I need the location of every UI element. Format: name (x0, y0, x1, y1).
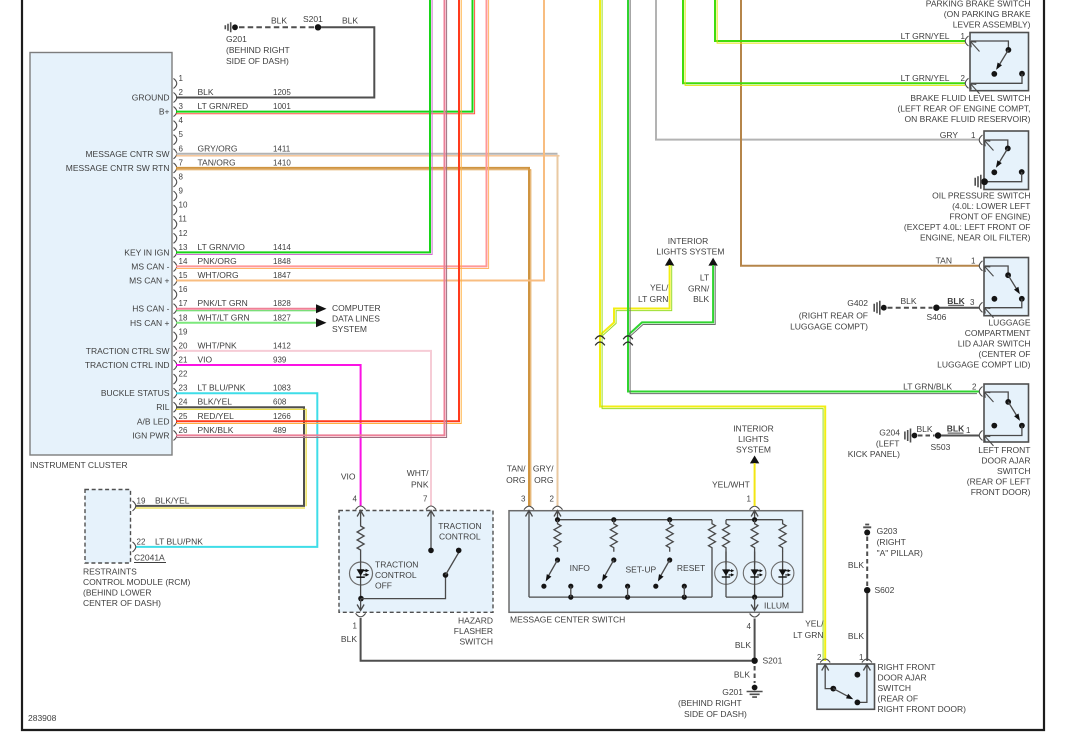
svg-text:2: 2 (817, 653, 822, 662)
wire BLK S602 to right front door switch pin 1 (848, 593, 867, 661)
svg-text:BLK: BLK (848, 631, 864, 641)
svg-text:S201: S201 (763, 656, 783, 666)
svg-text:LT GRN: LT GRN (793, 630, 823, 640)
svg-text:2: 2 (550, 495, 555, 504)
message center switch pin 1 connector (712, 480, 760, 510)
wire YEL/LT GRN from top edge to break (600, 0, 602, 348)
svg-text:13: 13 (179, 243, 188, 252)
svg-text:LT BLU/PNK: LT BLU/PNK (155, 536, 203, 546)
svg-text:HAZARD: HAZARD (458, 616, 493, 626)
wire BLK dashed G201 to S201 (239, 16, 314, 28)
ground G402 (right rear of luggage compt) (790, 298, 887, 332)
brake fluid level switch box (897, 33, 1030, 125)
message center pin 4 exit arrow (751, 597, 758, 610)
svg-text:1: 1 (971, 131, 976, 140)
svg-text:21: 21 (179, 356, 188, 365)
svg-text:16: 16 (179, 285, 188, 294)
wire TAN/ORG 1410 cluster pin 7 to message center switch pin 3 (176, 168, 531, 506)
wire YEL/LT GRN arrow jog to break (600, 265, 671, 336)
svg-text:25: 25 (179, 412, 188, 421)
left front door switch pin 1 connector (966, 426, 994, 446)
oil pressure switch contacts (985, 140, 1025, 182)
svg-text:1266: 1266 (273, 412, 291, 421)
svg-text:7: 7 (179, 158, 184, 167)
luggage switch pin 3 connector (970, 298, 994, 318)
svg-text:KEY IN IGN: KEY IN IGN (124, 247, 169, 257)
svg-text:(RIGHT REAR OF: (RIGHT REAR OF (799, 311, 868, 321)
svg-text:489: 489 (273, 426, 287, 435)
ground G201 (behind right side of dash) bottom (678, 685, 763, 720)
svg-text:1414: 1414 (273, 243, 291, 252)
svg-text:20: 20 (179, 341, 188, 350)
svg-text:BLK: BLK (734, 670, 750, 680)
svg-text:10: 10 (179, 201, 188, 210)
svg-text:12: 12 (179, 229, 188, 238)
label parking brake switch (926, 0, 1031, 30)
svg-text:(BEHIND LOWER: (BEHIND LOWER (83, 588, 151, 598)
wire BLK dashed G203 to S602 (848, 537, 867, 587)
connector C2041A label (134, 553, 166, 563)
svg-text:17: 17 (179, 299, 188, 308)
svg-text:BLK: BLK (198, 87, 214, 97)
wire WHT/PNK 1412 cluster pin 20 to hazard flasher pin 7 (176, 351, 431, 506)
ground G203 (right A pillar) (863, 525, 923, 559)
svg-text:VIO: VIO (198, 355, 213, 365)
wire BLK dashed G204 to S503 (916, 424, 934, 435)
svg-text:LIGHTS SYSTEM: LIGHTS SYSTEM (656, 247, 724, 257)
hazard flasher switch lever (361, 548, 462, 599)
svg-text:BLK: BLK (900, 296, 916, 306)
svg-text:15: 15 (179, 271, 188, 280)
instrument cluster pin numbers (179, 74, 188, 435)
svg-text:LT GRN/BLK: LT GRN/BLK (903, 381, 952, 391)
label traction control (438, 521, 481, 542)
svg-text:IGN PWR: IGN PWR (132, 430, 169, 440)
resistor reset (666, 520, 673, 552)
right front door switch contacts (822, 665, 871, 706)
hazard flasher resistor (357, 524, 364, 552)
svg-text:1: 1 (859, 653, 864, 662)
svg-text:1: 1 (747, 495, 752, 504)
instrument cluster signal labels (66, 93, 170, 441)
svg-text:GRY: GRY (940, 130, 959, 140)
svg-text:BLK: BLK (693, 294, 709, 304)
wire LT GRN/BLK arrow jog to break (628, 265, 715, 337)
svg-text:1827: 1827 (273, 313, 291, 322)
svg-text:YEL/: YEL/ (805, 619, 824, 629)
label computer data lines system (332, 303, 381, 334)
svg-text:4: 4 (353, 495, 358, 504)
instrument cluster pin connectors 1-26 (174, 78, 177, 440)
svg-text:8: 8 (179, 173, 184, 182)
svg-text:SYSTEM: SYSTEM (736, 444, 771, 454)
svg-text:GRY/: GRY/ (533, 464, 554, 474)
svg-text:OIL PRESSURE SWITCH: OIL PRESSURE SWITCH (932, 191, 1030, 201)
svg-text:TRACTION: TRACTION (438, 521, 481, 531)
splice S406 (927, 305, 947, 322)
svg-text:WHT/ORG: WHT/ORG (198, 270, 239, 280)
svg-text:SET-UP: SET-UP (626, 565, 657, 575)
svg-text:5: 5 (179, 130, 184, 139)
svg-text:RESET: RESET (677, 563, 705, 573)
svg-text:ON BRAKE FLUID RESERVOIR): ON BRAKE FLUID RESERVOIR) (905, 114, 1031, 124)
svg-text:1410: 1410 (273, 158, 291, 167)
svg-text:(ON PARKING BRAKE: (ON PARKING BRAKE (944, 9, 1031, 19)
svg-text:TAN/ORG: TAN/ORG (198, 157, 236, 167)
svg-text:HS CAN +: HS CAN + (130, 318, 169, 328)
svg-text:1848: 1848 (273, 257, 291, 266)
resistor info (554, 520, 561, 552)
wire GRY oil pressure switch feed (656, 0, 979, 140)
svg-text:SWITCH: SWITCH (878, 683, 912, 693)
label YEL/LT GRN upper (638, 283, 669, 305)
svg-text:LID AJAR SWITCH: LID AJAR SWITCH (958, 339, 1031, 349)
wire LT GRN/VIO 1414 cluster pin 13 to top (176, 0, 432, 255)
svg-text:SWITCH: SWITCH (459, 637, 493, 647)
svg-text:1: 1 (179, 74, 184, 83)
label interior lights system lower (733, 423, 774, 454)
svg-text:C2041A: C2041A (134, 553, 165, 563)
svg-text:(LEFT REAR OF ENGINE COMPT,: (LEFT REAR OF ENGINE COMPT, (897, 104, 1030, 114)
right front door ajar switch box (817, 662, 966, 714)
wire VIO 939 cluster pin 21 to hazard flasher pin 4 (176, 365, 361, 506)
splice S201 top (303, 14, 323, 30)
splice S602 (864, 585, 895, 595)
svg-text:FRONT OF ENGINE): FRONT OF ENGINE) (949, 212, 1030, 222)
svg-text:BRAKE FLUID LEVEL SWITCH: BRAKE FLUID LEVEL SWITCH (910, 93, 1030, 103)
svg-text:(BEHIND RIGHT: (BEHIND RIGHT (678, 698, 742, 708)
svg-text:LIGHTS: LIGHTS (738, 434, 769, 444)
wire BLK S503 to left front door switch pin 1 (941, 424, 979, 436)
svg-text:GROUND: GROUND (132, 93, 170, 103)
message center switch pin 2 connector (533, 464, 563, 510)
svg-text:2: 2 (961, 74, 966, 83)
svg-text:(LEFT: (LEFT (876, 439, 900, 449)
svg-text:CONTROL MODULE (RCM): CONTROL MODULE (RCM) (83, 577, 191, 587)
svg-text:22: 22 (179, 370, 188, 379)
wire BLK dashed G402 to S406 (888, 296, 933, 308)
illumination resistor 2 (751, 520, 758, 565)
luggage switch pin 1 connector (936, 256, 994, 277)
svg-text:G402: G402 (847, 298, 868, 308)
svg-text:BLK/YEL: BLK/YEL (198, 397, 233, 407)
svg-text:TAN: TAN (936, 256, 952, 266)
instrument cluster wire name labels (198, 87, 250, 435)
message center switch pin 3 connector (506, 464, 534, 510)
hazard flasher pin 7 entry arrow and contact (428, 511, 435, 554)
label traction control off (375, 560, 418, 591)
illumination resistor 3 (779, 520, 786, 552)
svg-text:(REAR OF LEFT: (REAR OF LEFT (967, 477, 1031, 487)
svg-text:(4.0L: LOWER LEFT: (4.0L: LOWER LEFT (952, 201, 1030, 211)
instrument cluster U1 box (30, 53, 172, 471)
svg-text:GRN/: GRN/ (688, 284, 710, 294)
svg-text:(BEHIND RIGHT: (BEHIND RIGHT (226, 45, 290, 55)
label interior lights system upper (656, 236, 724, 257)
illumination resistor 1 (723, 520, 730, 565)
RCM pin 22 connector (133, 536, 204, 552)
svg-text:GRY/ORG: GRY/ORG (198, 143, 238, 153)
svg-text:LUGGAGE: LUGGAGE (988, 318, 1030, 328)
svg-text:4: 4 (179, 116, 184, 125)
svg-text:(CENTER OF: (CENTER OF (979, 349, 1031, 359)
svg-text:PNK/BLK: PNK/BLK (198, 425, 234, 435)
svg-text:1: 1 (971, 257, 976, 266)
svg-text:LT GRN/YEL: LT GRN/YEL (901, 31, 950, 41)
svg-text:LEVER ASSEMBLY): LEVER ASSEMBLY) (953, 20, 1031, 30)
hazard flasher pin 4 entry arrow (357, 511, 364, 525)
right front door switch pin 2 connector (817, 653, 830, 663)
hazard flasher pin 4 connector (341, 472, 366, 510)
illumination LED 3 (771, 552, 794, 598)
svg-text:CENTER OF DASH): CENTER OF DASH) (83, 598, 161, 608)
svg-text:14: 14 (179, 257, 188, 266)
svg-text:3: 3 (970, 298, 975, 307)
svg-text:ORG: ORG (534, 475, 553, 485)
svg-text:1083: 1083 (273, 384, 291, 393)
svg-text:LUGGAGE COMPT LID): LUGGAGE COMPT LID) (937, 360, 1031, 370)
message center switch pin 2 entry arrow (554, 511, 561, 520)
svg-text:"A" PILLAR): "A" PILLAR) (877, 548, 923, 558)
svg-text:24: 24 (179, 398, 188, 407)
svg-text:G204: G204 (879, 428, 900, 438)
svg-text:B+: B+ (159, 107, 170, 117)
svg-text:FLASHER: FLASHER (454, 626, 493, 636)
svg-text:RESTRAINTS: RESTRAINTS (83, 567, 137, 577)
wire BLK hazard flasher pin 1 to S201 (361, 618, 752, 661)
svg-text:TRACTION CTRL SW: TRACTION CTRL SW (86, 346, 170, 356)
resistor illumination feed (709, 520, 716, 597)
svg-text:1: 1 (353, 622, 358, 631)
svg-text:CONTROL: CONTROL (439, 532, 481, 542)
illumination LED 1 (715, 552, 738, 598)
svg-text:1205: 1205 (273, 88, 291, 97)
svg-text:BLK: BLK (947, 296, 965, 306)
splice S201 (751, 656, 782, 666)
svg-text:19: 19 (179, 327, 188, 336)
svg-text:RIGHT FRONT DOOR): RIGHT FRONT DOOR) (878, 704, 967, 714)
svg-text:BLK: BLK (848, 560, 864, 570)
brake fluid switch contacts (971, 41, 1025, 83)
wire LT BLU/PNK 1083 cluster pin 23 to RCM pin 22 (136, 393, 318, 547)
arrow to interior lights system LT GRN/BLK (708, 258, 717, 266)
splice S503 (931, 432, 951, 452)
hazard flasher pin 1 connector (341, 613, 366, 644)
break symbol LT GRN/BLK (623, 336, 633, 346)
label YEL/LT GRN at right front door (793, 619, 824, 641)
switch reset (653, 557, 705, 597)
wire PNK/ORG 1848 cluster pin 14 to top (176, 0, 489, 269)
svg-text:OFF: OFF (375, 581, 392, 591)
wire LT GRN/YEL 1 brake fluid switch pin 1 (715, 0, 965, 43)
switch set-up (597, 557, 656, 597)
svg-text:TRACTION CTRL IND: TRACTION CTRL IND (85, 360, 170, 370)
svg-text:(REAR OF: (REAR OF (878, 694, 919, 704)
svg-text:A/B LED: A/B LED (137, 416, 170, 426)
hazard flasher switch box (339, 511, 493, 647)
arrow computer data lines upper (316, 304, 327, 313)
svg-text:LUGGAGE COMPT): LUGGAGE COMPT) (790, 322, 868, 332)
svg-text:BUCKLE STATUS: BUCKLE STATUS (101, 388, 170, 398)
arrow computer data lines lower (316, 318, 327, 327)
svg-text:BLK: BLK (916, 424, 932, 434)
svg-text:HS CAN -: HS CAN - (132, 304, 169, 314)
svg-text:MESSAGE CNTR SW RTN: MESSAGE CNTR SW RTN (66, 163, 170, 173)
left front door switch contacts (985, 392, 1025, 436)
svg-text:BLK: BLK (342, 16, 358, 26)
svg-text:TAN/: TAN/ (507, 464, 526, 474)
svg-text:23: 23 (179, 384, 188, 393)
diagram number 283908 (28, 713, 57, 723)
brake fluid switch pin 1 connector (901, 31, 980, 52)
message center pin 4 connector (735, 614, 760, 651)
oil pressure switch pin 1 connector (940, 130, 994, 151)
svg-text:PNK/LT GRN: PNK/LT GRN (198, 298, 248, 308)
svg-text:MESSAGE CENTER SWITCH: MESSAGE CENTER SWITCH (510, 615, 625, 625)
svg-text:S201: S201 (303, 14, 323, 24)
svg-text:ILLUM: ILLUM (764, 601, 789, 611)
wire WHT/ORG 1847 cluster pin 15 to top (176, 0, 544, 281)
illumination bottom bus (726, 595, 783, 600)
svg-text:DATA LINES: DATA LINES (332, 314, 380, 324)
svg-text:DOOR AJAR: DOOR AJAR (878, 673, 927, 683)
svg-text:1847: 1847 (273, 271, 291, 280)
hazard flasher pin 7 connector (407, 468, 436, 510)
hazard flasher junction dot (358, 596, 364, 602)
svg-text:WHT/: WHT/ (407, 468, 429, 478)
svg-text:9: 9 (179, 187, 184, 196)
switch info (541, 557, 590, 597)
svg-text:PARKING BRAKE SWITCH: PARKING BRAKE SWITCH (926, 0, 1031, 9)
resistor set-up (610, 520, 617, 552)
svg-text:SIDE OF DASH): SIDE OF DASH) (684, 709, 747, 719)
svg-text:RIL: RIL (156, 402, 170, 412)
svg-text:BLK: BLK (735, 640, 751, 650)
luggage compartment lid ajar switch box (937, 258, 1031, 370)
svg-text:TRACTION: TRACTION (375, 560, 418, 570)
svg-text:1: 1 (961, 32, 966, 41)
svg-text:PNK/ORG: PNK/ORG (198, 256, 237, 266)
oil pressure switch box (904, 131, 1031, 243)
svg-text:S602: S602 (875, 585, 895, 595)
svg-text:LT GRN/VIO: LT GRN/VIO (198, 242, 246, 252)
arrow to interior lights system YEL/WHT (750, 456, 759, 464)
svg-text:S503: S503 (931, 442, 951, 452)
svg-text:CONTROL: CONTROL (375, 570, 417, 580)
svg-text:1: 1 (966, 426, 971, 435)
ground at oil pressure switch (975, 175, 988, 189)
svg-text:ENGINE, NEAR OIL FILTER): ENGINE, NEAR OIL FILTER) (920, 233, 1031, 243)
svg-text:INSTRUMENT CLUSTER: INSTRUMENT CLUSTER (30, 460, 128, 470)
wire TAN luggage lid switch feed (741, 0, 979, 266)
svg-text:2: 2 (972, 382, 977, 391)
wire LT GRN/YEL 2 brake fluid switch pin 2 (683, 0, 965, 85)
svg-text:LT BLU/PNK: LT BLU/PNK (198, 383, 246, 393)
right front door switch pin 1 connector (859, 653, 872, 663)
svg-text:MESSAGE CNTR SW: MESSAGE CNTR SW (85, 149, 169, 159)
wire BLK/YEL 608 cluster pin 24 to RCM pin 19 (136, 407, 307, 508)
message center pin 1 entry arrow (751, 511, 758, 520)
label LT GRN/BLK upper (688, 272, 710, 304)
svg-text:S406: S406 (927, 312, 947, 322)
svg-text:939: 939 (273, 356, 287, 365)
svg-text:BLK: BLK (271, 16, 287, 26)
wire YEL/LT GRN break to right front door pin 2 (600, 348, 825, 661)
svg-text:PNK: PNK (411, 480, 429, 490)
illumination LED 2 (743, 552, 766, 598)
svg-text:WHT/LT GRN: WHT/LT GRN (198, 312, 250, 322)
svg-text:11: 11 (179, 215, 188, 224)
illumination top bus (726, 517, 783, 522)
svg-text:COMPUTER: COMPUTER (332, 303, 381, 313)
svg-text:SIDE OF DASH): SIDE OF DASH) (226, 56, 289, 66)
svg-text:LT: LT (700, 272, 709, 282)
wire WHT/LT GRN 1827 cluster pin 18 to computer data lines arrow (176, 322, 316, 324)
svg-text:DOOR AJAR: DOOR AJAR (981, 456, 1030, 466)
wire PNK/BLK 489 cluster pin 26 to top (176, 0, 447, 438)
message center switch top bus (555, 517, 712, 522)
svg-text:COMPARTMENT: COMPARTMENT (965, 328, 1031, 338)
wire BLK dashed S201 to G201 (734, 666, 755, 683)
svg-text:19: 19 (137, 496, 146, 505)
svg-text:(EXCEPT 4.0L: LEFT FRONT OF: (EXCEPT 4.0L: LEFT FRONT OF (904, 222, 1031, 232)
svg-text:1411: 1411 (273, 144, 291, 153)
ground G204 (left kick panel) (848, 428, 918, 460)
svg-text:LT GRN: LT GRN (638, 294, 668, 304)
svg-text:283908: 283908 (28, 713, 57, 723)
svg-text:SWITCH: SWITCH (997, 466, 1031, 476)
svg-text:(RIGHT: (RIGHT (877, 537, 906, 547)
message center switch box (509, 511, 803, 625)
svg-text:ORG: ORG (506, 475, 525, 485)
svg-text:LT GRN/RED: LT GRN/RED (198, 101, 249, 111)
svg-text:G201: G201 (722, 687, 743, 697)
svg-text:3: 3 (179, 102, 184, 111)
svg-text:INTERIOR: INTERIOR (668, 236, 709, 246)
wire BLK S406 to luggage switch pin 3 (940, 296, 980, 308)
wire BLK 1205 S201 to cluster pin 2 (176, 16, 375, 98)
svg-text:G201: G201 (226, 34, 247, 44)
svg-text:MS CAN -: MS CAN - (131, 261, 169, 271)
svg-text:SYSTEM: SYSTEM (332, 324, 367, 334)
svg-text:22: 22 (137, 537, 146, 546)
brake fluid switch pin 2 connector (901, 73, 980, 94)
instrument cluster circuit numbers (273, 88, 291, 435)
svg-text:LT GRN/YEL: LT GRN/YEL (901, 73, 950, 83)
luggage switch contacts (985, 266, 1025, 308)
left front door ajar switch box (967, 384, 1031, 497)
svg-text:BLK/YEL: BLK/YEL (155, 495, 190, 505)
svg-text:7: 7 (423, 495, 428, 504)
svg-text:18: 18 (179, 313, 188, 322)
svg-text:MS CAN +: MS CAN + (129, 276, 169, 286)
svg-text:BLK: BLK (341, 634, 357, 644)
wire BLK message center pin 4 to S201 (754, 619, 756, 664)
wire LT GRN/RED 1001 cluster pin 3 to top (176, 0, 475, 114)
svg-text:YEL/: YEL/ (650, 283, 669, 293)
svg-text:6: 6 (179, 144, 184, 153)
ground G201 (behind right side of dash) top (225, 22, 289, 66)
wire GRY/ORG 1411 cluster pin 6 to message center switch pin 2 (176, 154, 560, 506)
svg-text:608: 608 (273, 398, 287, 407)
message center switch pin 3 entry arrow and riser (526, 511, 533, 598)
svg-text:1412: 1412 (273, 341, 291, 350)
svg-text:INFO: INFO (570, 563, 591, 573)
svg-text:1001: 1001 (273, 102, 291, 111)
svg-text:VIO: VIO (341, 472, 356, 482)
svg-text:3: 3 (521, 495, 526, 504)
svg-text:WHT/PNK: WHT/PNK (198, 340, 238, 350)
